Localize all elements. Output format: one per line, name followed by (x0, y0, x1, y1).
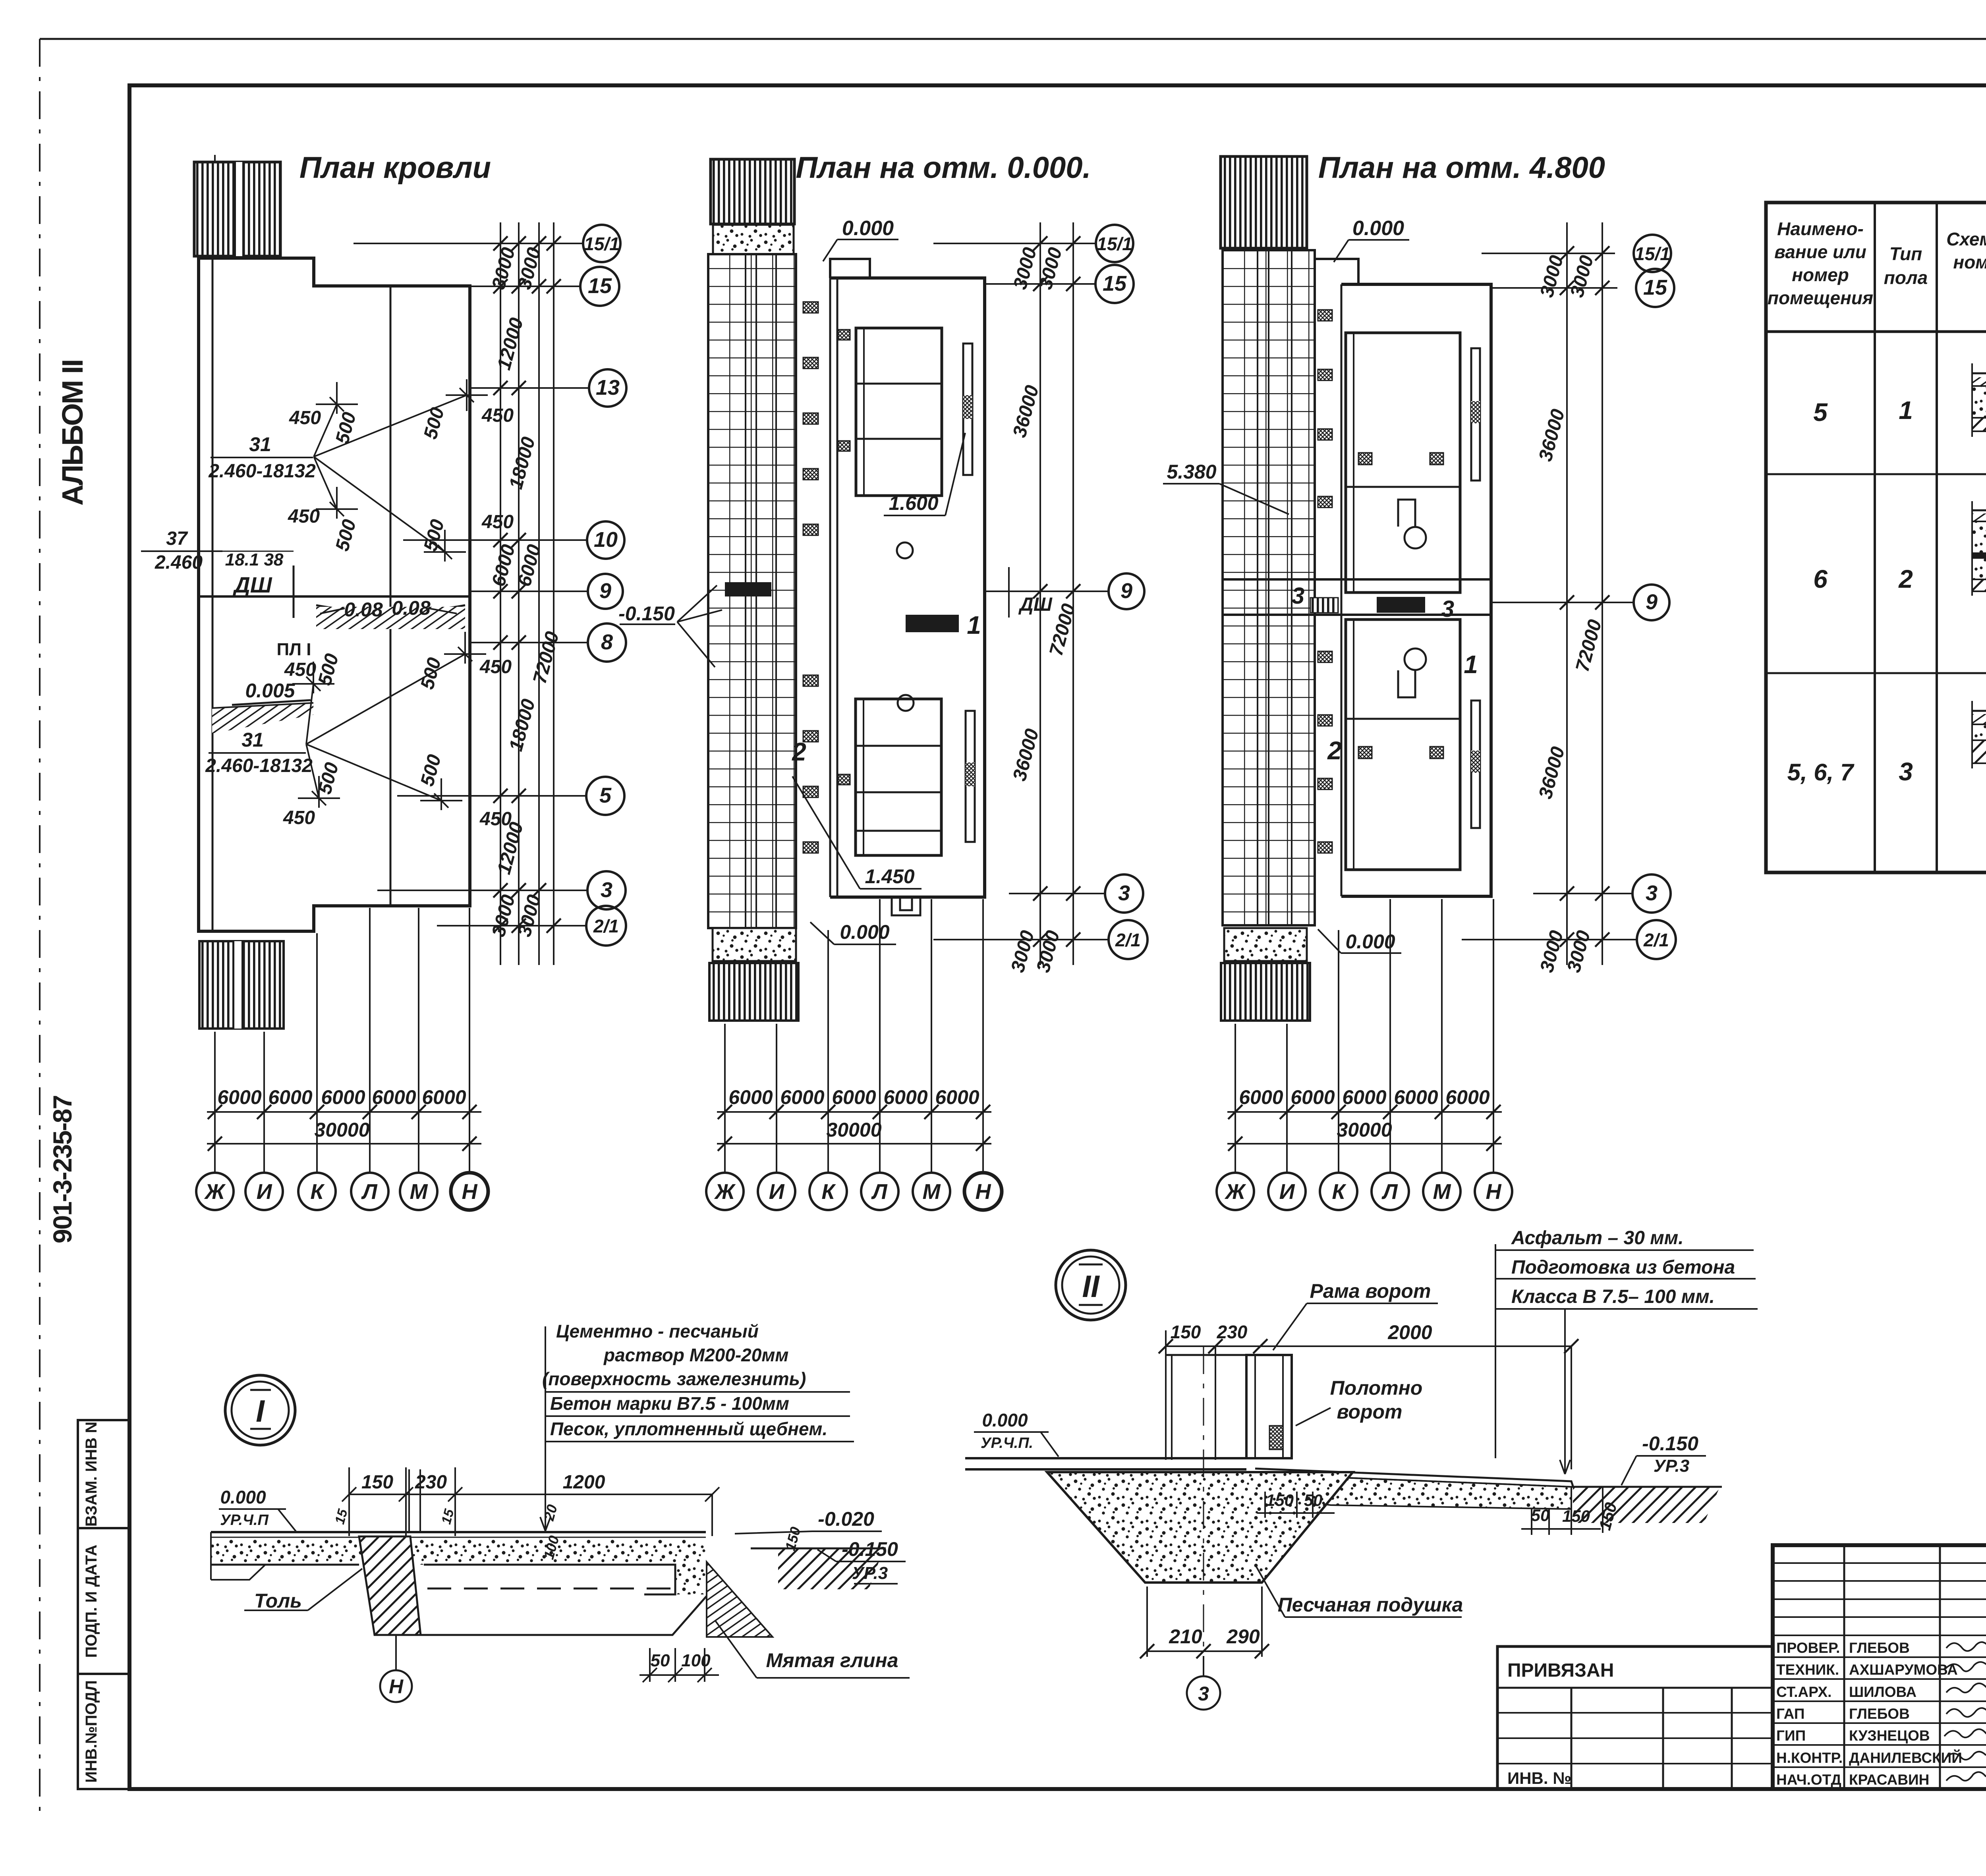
svg-text:3: 3 (1198, 1683, 1209, 1705)
svg-text:6000: 6000 (883, 1086, 927, 1108)
svg-text:50.: 50. (1304, 1491, 1327, 1509)
svg-text:6000: 6000 (372, 1086, 416, 1108)
svg-text:пола: пола (1884, 267, 1928, 288)
plan 0.000: lower tank (856, 699, 941, 855)
plan 4.800: column leaders to bottom bubbles (1227, 899, 1502, 1173)
svg-text:I: I (256, 1393, 265, 1428)
section I axis bubble Н (395, 1635, 397, 1670)
section II sloped road slab (1255, 1469, 1573, 1509)
section I ground hatch right (778, 1548, 884, 1589)
roof plan: expansion joint line ДШ (199, 595, 470, 598)
svg-text:Цементно - песчаный: Цементно - песчаный (556, 1321, 759, 1341)
roof plan: slope 0.08 curve and hatch (316, 605, 465, 612)
svg-text:УР.3: УР.3 (852, 1563, 888, 1583)
svg-text:М: М (410, 1180, 428, 1204)
svg-text:Л: Л (361, 1180, 378, 1204)
svg-text:4.800: 4.800 (1385, 598, 1417, 612)
svg-text:290: 290 (1226, 1625, 1260, 1648)
roof plan: axis tail (214, 155, 216, 257)
svg-text:ПРОВЕР.: ПРОВЕР. (1776, 1640, 1840, 1656)
svg-text:-0.150: -0.150 (1642, 1432, 1698, 1455)
plan 0.000: floor drain circles (897, 542, 913, 558)
svg-text:Л: Л (1381, 1180, 1398, 1204)
svg-text:План на отм. 4.800: План на отм. 4.800 (1318, 151, 1605, 185)
plan 0.000: top hatched block (711, 159, 794, 224)
plan 4.800: lower module (1346, 620, 1460, 870)
svg-text:УР.Ч.П: УР.Ч.П (220, 1512, 269, 1529)
plan 4.800: bottom concrete block (1224, 928, 1307, 961)
svg-text:-0.150: -0.150 (842, 1538, 898, 1560)
roof plan: top ventilation hatched block (194, 162, 280, 256)
plan 0.000: wall grid strip (708, 254, 796, 928)
svg-text:15/1: 15/1 (584, 234, 620, 254)
svg-text:Песчаная подушка: Песчаная подушка (1278, 1594, 1463, 1616)
svg-text:450: 450 (481, 511, 514, 533)
section II foundation pit (1047, 1472, 1353, 1583)
svg-text:2.460: 2.460 (155, 552, 203, 573)
svg-text:И: И (769, 1180, 785, 1204)
svg-text:План на отм. 0.000.: План на отм. 0.000. (796, 151, 1091, 185)
section I spec text (542, 1321, 827, 1439)
section II ground hatch right (1573, 1487, 1720, 1523)
plan 0.000: upper right bar (963, 344, 972, 475)
svg-text:2/1: 2/1 (1115, 930, 1141, 950)
plan 4.800: right dimension verticals (1462, 222, 1637, 965)
svg-text:ДШ: ДШ (232, 572, 272, 597)
svg-text:37: 37 (166, 528, 188, 549)
svg-text:210: 210 (1169, 1625, 1202, 1648)
svg-text:Толь: Толь (254, 1590, 302, 1612)
svg-text:0.000: 0.000 (915, 616, 949, 631)
plan 4.800: middle gallery band (1222, 579, 1491, 615)
svg-text:АХШАРУМОВА: АХШАРУМОВА (1849, 1662, 1958, 1678)
plan 4.800: wall grid strip (1223, 250, 1315, 925)
section I marker (225, 1375, 295, 1445)
plan 0.000: bottom concrete block (713, 928, 796, 961)
roof plan: bottom axis bubbles (196, 1173, 488, 1210)
svg-text:Рама ворот: Рама ворот (1310, 1280, 1431, 1302)
svg-text:15/1: 15/1 (1097, 234, 1132, 254)
plan 0.000: top vestibule (830, 259, 870, 278)
plan 4.800: level box 4.800 (1377, 597, 1425, 613)
section I floor slab (211, 1532, 706, 1594)
svg-text:И: И (1279, 1180, 1295, 1204)
svg-text:План кровли: План кровли (299, 151, 491, 185)
svg-text:3: 3 (1899, 757, 1913, 786)
plan 0.000: axis bubbles right (1095, 225, 1148, 959)
svg-text:Схема пола или: Схема пола или (1946, 229, 1986, 249)
svg-text:Л: Л (871, 1180, 888, 1204)
svg-text:М: М (1433, 1180, 1451, 1204)
svg-text:Ж: Ж (714, 1180, 736, 1204)
svg-text:901-3-235-87: 901-3-235-87 (48, 1096, 77, 1243)
svg-text:ИНВ.№ПОДЛ: ИНВ.№ПОДЛ (83, 1680, 100, 1783)
svg-text:31: 31 (241, 729, 264, 751)
svg-text:КРАСАВИН: КРАСАВИН (1849, 1772, 1929, 1788)
svg-text:3: 3 (601, 878, 612, 902)
svg-text:помещения: помещения (1768, 288, 1873, 308)
svg-text:6000: 6000 (1291, 1086, 1335, 1108)
svg-text:Асфальт – 30 мм.: Асфальт – 30 мм. (1511, 1228, 1684, 1249)
svg-text:450: 450 (289, 407, 321, 428)
svg-text:ПРИВЯЗАН: ПРИВЯЗАН (1507, 1660, 1614, 1681)
svg-text:1.600: 1.600 (889, 492, 938, 514)
svg-text:1: 1 (1899, 396, 1913, 425)
svg-text:АЛЬБОМ II: АЛЬБОМ II (56, 360, 89, 506)
svg-text:6000: 6000 (422, 1086, 466, 1108)
roof plan: dimension tick slashes (493, 236, 561, 933)
svg-text:УР.Ч.П.: УР.Ч.П. (981, 1435, 1033, 1451)
svg-text:номер: номер (1792, 264, 1849, 285)
svg-text:Песок, уплотненный щебнем.: Песок, уплотненный щебнем. (550, 1419, 827, 1439)
svg-text:Мятая глина: Мятая глина (766, 1649, 898, 1671)
svg-text:М: М (923, 1180, 941, 1204)
plan 4.800: bottom hatched block (1221, 963, 1310, 1021)
svg-text:КУЗНЕЦОВ: КУЗНЕЦОВ (1849, 1727, 1930, 1744)
roof plan: column leader lines to bottom bubbles (207, 908, 481, 1173)
svg-text:Класса В 7.5– 100 мм.: Класса В 7.5– 100 мм. (1511, 1286, 1715, 1307)
svg-text:Н: Н (389, 1675, 404, 1698)
plan 0.000: bottom hatched block (709, 963, 798, 1021)
svg-text:6000: 6000 (1342, 1086, 1386, 1108)
svg-text:150: 150 (1171, 1322, 1201, 1342)
svg-text:2000: 2000 (1387, 1321, 1432, 1343)
svg-text:1: 1 (967, 611, 981, 639)
svg-text:СТ.АРХ.: СТ.АРХ. (1776, 1684, 1831, 1700)
svg-text:ПЛ I: ПЛ I (277, 640, 311, 659)
roof plan: upper valley X lines (314, 379, 488, 562)
roof plan: axis bubbles right (580, 225, 626, 946)
svg-text:5.380: 5.380 (1167, 461, 1216, 483)
svg-text:-0.020: -0.020 (818, 1508, 874, 1530)
plan 0.000: top concrete block (713, 225, 794, 257)
svg-text:К: К (310, 1180, 325, 1204)
svg-text:НАЧ.ОТД: НАЧ.ОТД (1776, 1772, 1841, 1788)
svg-text:ПОДП. И ДАТА: ПОДП. И ДАТА (83, 1545, 100, 1658)
plan 0.000: hall outline (830, 278, 985, 897)
svg-text:3: 3 (1292, 583, 1304, 609)
roof plan: building outline (199, 258, 470, 931)
svg-text:6000: 6000 (321, 1086, 365, 1108)
svg-text:2.460-18132: 2.460-18132 (208, 461, 316, 482)
section I wall stub (409, 1469, 420, 1532)
svg-text:450: 450 (284, 659, 316, 680)
plan 0.000: corridor equipment marks (803, 302, 850, 853)
svg-text:6000: 6000 (1394, 1086, 1438, 1108)
svg-text:15: 15 (1103, 272, 1127, 295)
plan 4.800: top hatched block (1221, 156, 1307, 248)
svg-text:ВЗАМ. ИНВ N: ВЗАМ. ИНВ N (83, 1422, 100, 1527)
svg-text:3: 3 (1441, 596, 1454, 622)
explication row 3: floor schema (1972, 701, 1986, 768)
svg-text:9: 9 (599, 579, 611, 603)
svg-text:Ж: Ж (1224, 1180, 1246, 1204)
plan 0.000: dim slashes (1033, 236, 1080, 947)
svg-text:ГАП: ГАП (1776, 1706, 1804, 1722)
svg-text:ГЛЕБОВ: ГЛЕБОВ (1849, 1706, 1910, 1722)
stamp: attachment block ПРИВЯЗАН (1497, 1646, 1773, 1789)
plan 4.800: bottom axis bubbles (1217, 1173, 1512, 1210)
svg-text:450: 450 (479, 656, 512, 677)
svg-text:18.1 38: 18.1 38 (225, 550, 284, 569)
svg-text:30000: 30000 (314, 1119, 369, 1141)
svg-text:раствор М200-20мм: раствор М200-20мм (603, 1345, 788, 1365)
svg-text:0.000: 0.000 (1352, 217, 1404, 240)
svg-text:1.300: 1.300 (733, 583, 763, 596)
plan 0.000: bottom axis bubbles (706, 1173, 1002, 1210)
svg-text:2: 2 (1898, 565, 1913, 593)
svg-text:450: 450 (283, 807, 315, 828)
svg-text:5: 5 (1813, 398, 1828, 427)
svg-text:Полотно: Полотно (1330, 1377, 1423, 1399)
plan 4.800: corridor walls (1315, 250, 1341, 925)
roof plan: right dimension verticals (314, 222, 589, 965)
svg-text:ворот: ворот (1337, 1401, 1402, 1423)
svg-text:5, 6, 7: 5, 6, 7 (1787, 759, 1855, 786)
svg-text:Н.КОНТР.: Н.КОНТР. (1776, 1750, 1843, 1766)
svg-text:1: 1 (1464, 650, 1478, 679)
svg-text:3: 3 (1646, 881, 1658, 905)
svg-text:0.005: 0.005 (245, 679, 295, 702)
svg-text:К: К (821, 1180, 836, 1204)
svg-text:15/1: 15/1 (1634, 243, 1670, 264)
plan 0.000: upper tank (856, 328, 942, 496)
plan 0.000: column leaders to bottom bubbles (717, 899, 991, 1173)
svg-text:100: 100 (681, 1651, 711, 1670)
plan 4.800: top step notch (1315, 259, 1358, 284)
plan 4.800: upper module (1346, 333, 1460, 593)
svg-text:0.08: 0.08 (344, 598, 383, 621)
svg-text:50: 50 (1531, 1506, 1550, 1525)
plan 0.000: corridor walls (796, 254, 837, 928)
svg-text:2/1: 2/1 (1643, 930, 1669, 950)
section I dim line 150 230 1200 (342, 1467, 719, 1545)
roof plan: bottom dim slashes (208, 1105, 477, 1151)
svg-text:150: 150 (1562, 1507, 1590, 1525)
svg-text:450: 450 (288, 506, 320, 527)
plan 4.800: upper module pipe and drain (1404, 527, 1426, 548)
stamp: signature grid (1773, 1545, 1986, 1789)
section I foundation rib (359, 1536, 421, 1635)
svg-text:6000: 6000 (217, 1086, 261, 1108)
svg-text:К: К (1332, 1180, 1347, 1204)
svg-text:2.460-18132: 2.460-18132 (205, 755, 313, 776)
svg-text:31: 31 (249, 433, 271, 455)
svg-text:2: 2 (792, 737, 806, 766)
svg-text:450: 450 (481, 405, 514, 426)
svg-text:ГЛЕБОВ: ГЛЕБОВ (1849, 1640, 1910, 1656)
svg-text:15: 15 (588, 274, 612, 298)
stamp: signatures squiggles (1944, 1642, 1986, 1781)
svg-text:6000: 6000 (832, 1086, 876, 1108)
plan 4.800: hall outline (1341, 284, 1491, 896)
svg-text:номер узла по: номер узла по (1953, 252, 1986, 272)
svg-text:6000: 6000 (728, 1086, 773, 1108)
svg-text:УР.3: УР.3 (1654, 1456, 1689, 1476)
svg-text:II: II (1082, 1269, 1100, 1304)
section II marker (1056, 1250, 1126, 1320)
section II axis bubble 3 (1203, 1656, 1204, 1676)
svg-text:6000: 6000 (1445, 1086, 1489, 1108)
section II left floor slab (965, 1458, 1249, 1469)
svg-text:6000: 6000 (268, 1086, 312, 1108)
stamp: main title block frame (1773, 1545, 1986, 1789)
svg-text:150: 150 (1266, 1491, 1294, 1509)
svg-text:30000: 30000 (826, 1119, 881, 1141)
svg-text:0.000: 0.000 (842, 217, 894, 240)
plan 0.000: level box 1.300 (725, 582, 771, 596)
plan 0.000: bottom door (892, 897, 920, 915)
svg-text:(поверхность зажелезнить): (поверхность зажелезнить) (542, 1368, 806, 1389)
plan 4.800: right thin bars (1471, 348, 1480, 481)
svg-text:0.08: 0.08 (392, 597, 431, 619)
svg-text:ГИП: ГИП (1776, 1727, 1806, 1744)
section I leader vertical (540, 1326, 551, 1531)
svg-text:-0.150: -0.150 (618, 602, 675, 625)
roof plan: bottom hatched block (199, 941, 284, 1029)
svg-text:9: 9 (1121, 579, 1132, 603)
svg-text:9: 9 (1646, 590, 1658, 614)
svg-text:2/1: 2/1 (593, 916, 619, 936)
svg-text:0.000: 0.000 (1345, 930, 1395, 953)
plan 4.800: axis bubbles right (1632, 235, 1676, 959)
svg-text:Н: Н (976, 1180, 991, 1204)
svg-text:8: 8 (601, 630, 613, 654)
svg-text:50: 50 (651, 1651, 670, 1670)
svg-text:Тип: Тип (1889, 243, 1922, 264)
section II gate post (1166, 1355, 1292, 1460)
roof plan: bottom dim labels (217, 1086, 466, 1141)
svg-text:10: 10 (594, 528, 618, 552)
svg-text:Бетон марки В7.5 - 100мм: Бетон марки В7.5 - 100мм (550, 1393, 789, 1414)
svg-text:Н: Н (462, 1180, 478, 1204)
explication row 2: floor schema (1972, 501, 1986, 596)
plan 4.800: dim slashes (1560, 246, 1609, 947)
svg-text:1200: 1200 (563, 1472, 605, 1493)
stamp: signature rows text (1776, 1640, 1962, 1788)
explication table header texts (1768, 218, 1986, 308)
svg-text:И: И (257, 1180, 272, 1204)
section I clay wedge (707, 1562, 773, 1637)
svg-text:ИНВ. №: ИНВ. № (1507, 1769, 1571, 1787)
svg-text:30000: 30000 (1337, 1119, 1392, 1141)
svg-text:6000: 6000 (935, 1086, 979, 1108)
svg-text:6000: 6000 (780, 1086, 824, 1108)
svg-text:5: 5 (599, 784, 612, 807)
svg-text:0.000: 0.000 (220, 1487, 266, 1507)
explication table frame (1766, 203, 1986, 872)
svg-text:ТЕХНИК.: ТЕХНИК. (1776, 1662, 1839, 1678)
svg-text:0.000: 0.000 (840, 921, 889, 943)
plan 4.800: corridor equipment marks (1318, 310, 1443, 853)
svg-text:6000: 6000 (1239, 1086, 1283, 1108)
left margin stamp boxes (78, 1420, 129, 1789)
svg-text:15: 15 (1643, 276, 1667, 299)
roof plan: lower valley X lines (292, 632, 486, 810)
svg-text:ШИЛОВА: ШИЛОВА (1849, 1684, 1916, 1700)
svg-text:Наимено-: Наимено- (1777, 218, 1864, 239)
svg-text:Подготовка из бетона: Подготовка из бетона (1511, 1257, 1735, 1278)
plan 0.000: lower right bar (966, 711, 975, 842)
plan 0.000: level box 0.000 (906, 615, 959, 632)
plan 0.000: right dimension verticals (933, 222, 1109, 965)
svg-text:Н: Н (1486, 1180, 1502, 1204)
explication row 1: floor schema (1972, 363, 1986, 437)
svg-text:6: 6 (1813, 565, 1828, 593)
svg-text:вание или: вание или (1774, 241, 1866, 262)
svg-text:1.450: 1.450 (865, 865, 914, 888)
svg-text:0.000: 0.000 (982, 1410, 1028, 1430)
section II spec text (1511, 1228, 1735, 1307)
svg-text:150: 150 (361, 1472, 393, 1493)
svg-text:Ж: Ж (204, 1180, 226, 1204)
svg-text:3: 3 (1118, 881, 1130, 905)
svg-text:2: 2 (1327, 736, 1342, 765)
svg-text:13: 13 (596, 376, 620, 400)
plan 4.800: lower module pipe and drain (1404, 648, 1426, 670)
